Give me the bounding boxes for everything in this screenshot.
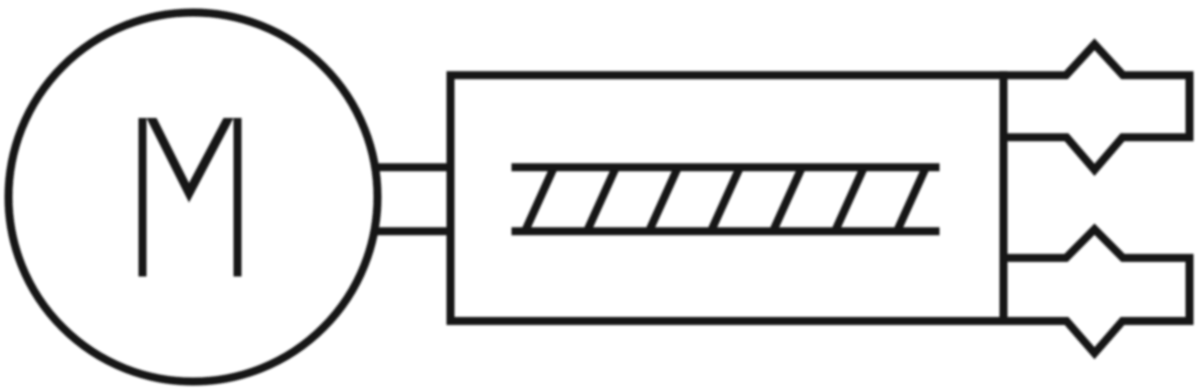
screw flight 1 [525,167,554,231]
screw flight 2 [587,167,616,231]
motor letter M [139,118,242,277]
screw top rail [512,163,940,171]
outlet connector K2 (bottom chevron band) [1004,229,1190,353]
screw flight 4 [711,167,740,231]
screw flight 5 [773,167,802,231]
screw flight 6 [835,167,864,231]
shaft coupling bottom line [374,227,452,235]
screw conveyor housing [451,75,1004,321]
screw flight 3 [649,167,678,231]
screw bottom rail [512,227,940,235]
motor M1 circle [9,13,378,382]
outlet connector K1 (top chevron band) [1004,44,1190,170]
shaft coupling top line [374,163,452,171]
screw flight 7 [897,167,926,231]
